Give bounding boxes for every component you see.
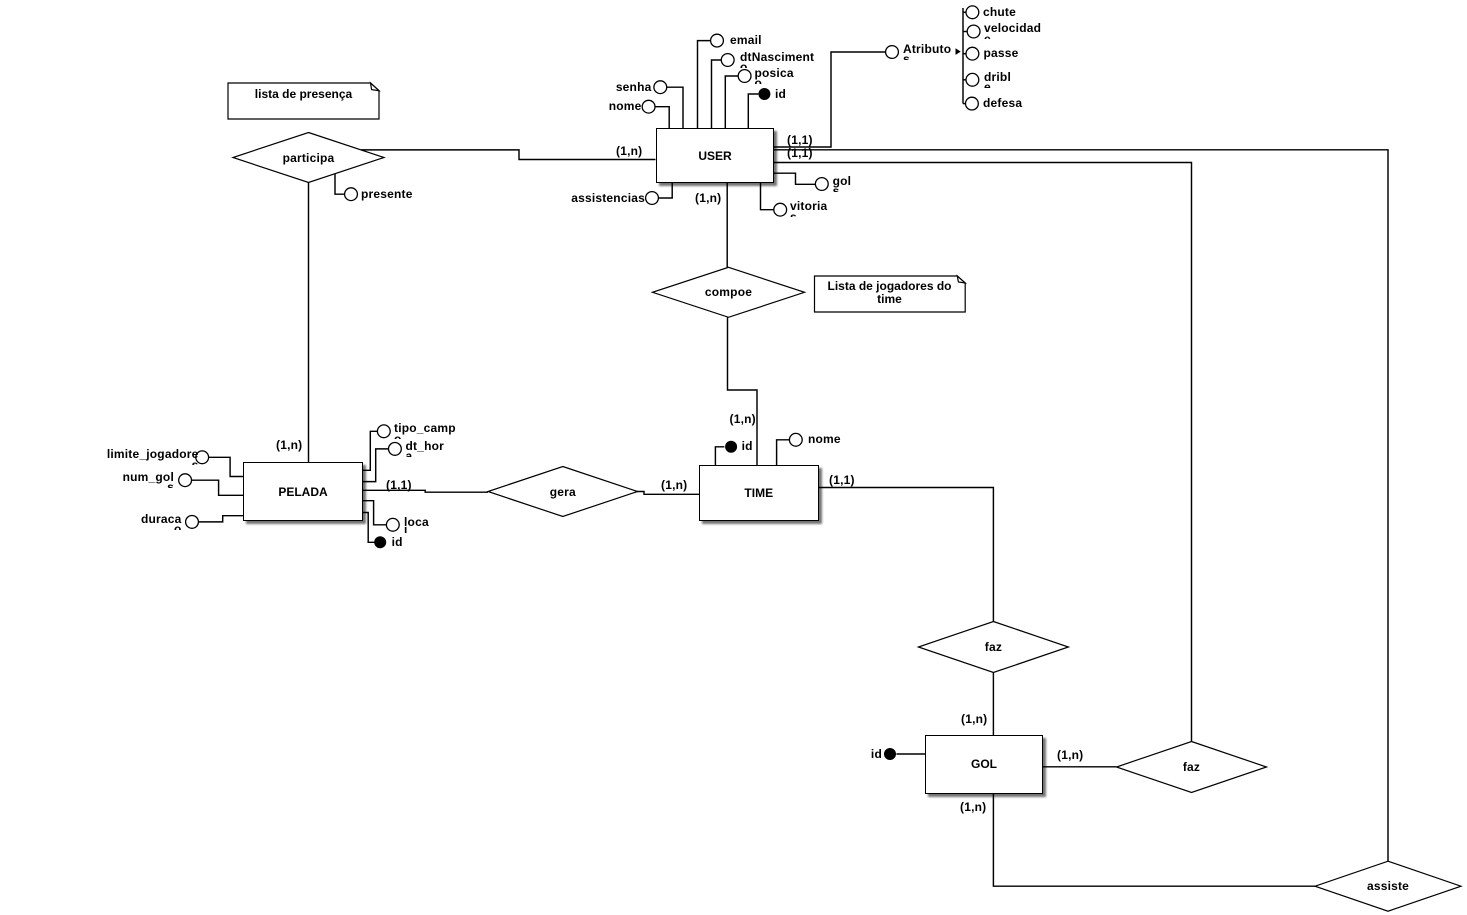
relationship compoe (653, 267, 805, 317)
wire attr id TIME (715, 447, 724, 466)
wire participa-presente (335, 174, 345, 194)
wire attr assistencias (659, 183, 673, 198)
wire USER-faz2 long (774, 163, 1192, 742)
attribute circle num_gols (179, 474, 192, 487)
label senha (616, 81, 652, 93)
label Atributo (903, 43, 951, 55)
wire attr tipo_campo (363, 431, 378, 470)
wire attr id GOL (896, 753, 925, 755)
cardinality (1,n) GOL-assiste (960, 801, 986, 813)
key attribute circle id GOL (884, 748, 896, 760)
relationship label assiste (1367, 879, 1409, 893)
key attribute circle id PELADA (374, 536, 386, 548)
wire gera-TIME (637, 492, 700, 495)
attribute circle nome TIME (789, 433, 802, 446)
wire attr local (363, 501, 387, 525)
attribute circle passe (966, 47, 979, 60)
label limite_jogadore (107, 448, 199, 460)
wire USER-assiste long (774, 150, 1389, 861)
attribute circle dt_hora (389, 443, 402, 456)
cardinality (1,n) gera-TIME (661, 479, 687, 491)
label num_gol (123, 471, 174, 483)
wire attr duracao (199, 516, 244, 522)
label loca (404, 516, 429, 528)
label vitoria (790, 200, 827, 212)
attribute circle tipo_campo (377, 425, 390, 438)
cardinality (1,n) compoe-TIME (730, 413, 756, 425)
relationship participa (233, 133, 384, 183)
composite arrow (956, 48, 961, 55)
attribute circle Atributo (886, 46, 899, 59)
wire attr dtNascimento (712, 60, 722, 129)
wire participa-USER (361, 150, 656, 160)
label nome USER (609, 100, 642, 112)
label velocidad (984, 22, 1041, 34)
label id PELADA (392, 536, 403, 548)
label gol (833, 175, 852, 187)
cardinality (1,1) USER-assiste (787, 134, 813, 146)
attribute circle drible (966, 73, 979, 86)
label posica (755, 67, 794, 79)
label email (730, 34, 762, 46)
attribute circle chute (966, 6, 979, 19)
wire attr dt_hora (363, 449, 389, 482)
label assistencias (571, 192, 645, 204)
wire attr nome USER (655, 107, 669, 129)
attribute circle presente (345, 188, 358, 201)
cardinality (1,n) faz1-GOL (961, 713, 987, 725)
cardinality (1,1) TIME-faz1 (829, 474, 855, 486)
relationship label compoe (705, 285, 752, 299)
note text Lista de jogadores do time (814, 280, 965, 306)
wire attr senha (667, 87, 683, 128)
relationship label faz2 (1183, 760, 1200, 774)
label dtNasciment (740, 51, 814, 63)
wire attr limite_jogadores (209, 457, 244, 476)
wire USER-compoe (726, 183, 728, 268)
relationship label participa (283, 151, 335, 165)
note text lista de presenca (228, 88, 379, 101)
cardinality (1,1) USER-faz2 (787, 147, 813, 159)
entity GOL (925, 735, 1043, 794)
note box Lista de jogadores do time (815, 276, 966, 312)
wire attr nome TIME (777, 440, 790, 466)
cardinality (1,n) USER-compoe (695, 192, 721, 204)
key attribute circle id USER (758, 88, 770, 100)
entity TIME (699, 465, 819, 521)
composite bracket Atributo (962, 8, 964, 104)
wire GOL-assiste (993, 793, 1315, 886)
relationship assiste (1315, 861, 1461, 911)
label defesa (983, 97, 1022, 109)
attribute circle dtNascimento (721, 54, 734, 67)
attribute circle posicao (738, 70, 751, 83)
wire attr gol (774, 173, 816, 184)
wire attr email (698, 41, 711, 129)
label chute (983, 6, 1016, 18)
label presente (361, 188, 413, 200)
entity USER (656, 128, 774, 183)
wire TIME-faz1 (818, 488, 993, 622)
attribute circle nome USER (642, 100, 655, 113)
label passe (984, 47, 1019, 59)
wire attr num_gols (192, 480, 244, 495)
attribute circle gol (815, 178, 828, 191)
wire faz1-GOL (992, 673, 994, 736)
label duraca (141, 513, 182, 525)
wire attr Atributo riser (774, 52, 886, 147)
wire attr id PELADA (363, 513, 375, 543)
wire compoe-TIME (728, 318, 758, 466)
key attribute circle id TIME (725, 441, 737, 453)
attribute circle email (711, 34, 724, 47)
relationship faz1 (918, 622, 1068, 673)
cardinality (1,1) PELADA-gera (386, 479, 412, 491)
label dribl (984, 71, 1011, 83)
attribute circle assistencias (646, 192, 659, 205)
attribute circle senha (654, 81, 667, 94)
relationship label faz1 (985, 640, 1002, 654)
attribute circle velocidade (967, 25, 980, 38)
wire PELADA-gera (363, 490, 488, 492)
label id TIME (742, 440, 753, 452)
label tipo_camp (394, 422, 456, 434)
relationship faz2 (1117, 742, 1267, 793)
note box lista de presenca (228, 83, 379, 119)
label nome TIME (808, 433, 841, 445)
attribute circle duracao (186, 516, 199, 529)
label dt_hor (406, 440, 445, 452)
attribute circle vitoria (774, 203, 787, 216)
wire participa-PELADA (308, 183, 310, 463)
label id GOL (871, 748, 882, 760)
label id USER (775, 88, 786, 100)
relationship gera (488, 467, 638, 517)
wire attr id USER (748, 94, 758, 129)
cardinality (1,n) GOL-faz2 (1057, 749, 1083, 761)
wire attr posicao (725, 76, 738, 129)
relationship label gera (550, 485, 576, 499)
cardinality (1,n) participa-USER (616, 145, 642, 157)
attribute circle limite_jogadores (196, 451, 209, 464)
wire attr vitoria (761, 183, 774, 210)
cardinality (1,n) participa-PELADA (276, 439, 302, 451)
wire GOL-faz2 (1043, 766, 1117, 768)
attribute circle local (386, 518, 399, 531)
attribute circle defesa (966, 97, 979, 110)
entity PELADA (243, 462, 363, 521)
